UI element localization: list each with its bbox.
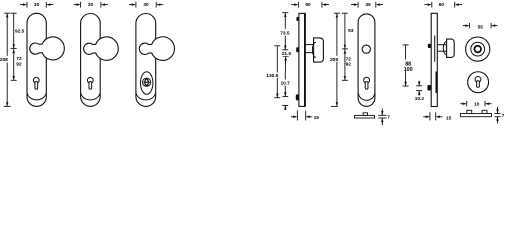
cylinder rosette keyhole [475, 76, 481, 82]
svg-text:7: 7 [387, 115, 390, 121]
svg-text:21.5: 21.5 [282, 51, 292, 57]
svg-text:92: 92 [346, 62, 352, 68]
svg-text:100: 100 [404, 67, 413, 73]
svg-text:55: 55 [478, 24, 484, 30]
plate 2 outline [81, 14, 101, 107]
front view width dimension 35 [351, 2, 383, 8]
thickness dimension 15 (group B) [423, 112, 442, 120]
plate 1 handle blob [30, 37, 65, 60]
side view B cylinder nub [427, 85, 431, 91]
plate 3 handle blob [139, 37, 174, 61]
plate 1 outline [27, 13, 46, 106]
svg-text:10.7: 10.7 [281, 81, 291, 87]
plate 2 handle blob [84, 37, 119, 60]
svg-text:7: 7 [502, 113, 505, 119]
side view A cylinder nub [296, 94, 299, 100]
plate 2 keyhole [87, 77, 93, 83]
side view A handle spindle nub [296, 47, 299, 52]
width dimension 30 plate 1 [20, 2, 53, 8]
plate 3 inner bottom arc [136, 93, 155, 100]
svg-text:15: 15 [446, 115, 452, 121]
side view A handle neck [305, 44, 313, 46]
depth dimension 60 [424, 2, 462, 8]
svg-text:130.5: 130.5 [266, 73, 278, 79]
right chain 93 / 72 / 92 [342, 13, 348, 80]
plate 1 inner bottom arc [27, 93, 46, 100]
front view inner bottom arc [358, 93, 375, 100]
side view B handle cap [447, 39, 455, 57]
rosette thickness dimension 7 [494, 107, 500, 124]
handle rosette diameter dimension 55 [463, 23, 498, 28]
plate 3 turn knob [143, 78, 151, 86]
svg-text:15: 15 [314, 115, 320, 121]
thickness dimension 7 [378, 108, 386, 125]
front view handle hole [362, 45, 370, 53]
right chain 208 [331, 13, 340, 106]
svg-text:30: 30 [34, 2, 40, 8]
side view B handle flange arc [443, 42, 446, 55]
left dimension line 92.5 / 72 / 92 [11, 13, 17, 80]
svg-text:72: 72 [346, 56, 352, 62]
plate 3 WC oval [141, 72, 153, 95]
plate 2 inner bottom arc [81, 93, 100, 100]
side view B plate bar [431, 13, 437, 106]
section profile below front view [355, 115, 375, 118]
plate 3 outline [136, 14, 156, 107]
svg-text:50: 50 [305, 2, 311, 8]
left dimension line 208 [4, 13, 11, 106]
svg-text:73.5: 73.5 [280, 31, 290, 37]
cylinder rosette front view [468, 72, 489, 93]
side view A handle flange arc [312, 42, 316, 57]
width dimension 30 plate 2 [74, 2, 108, 8]
chain dimension 88 / 100 [403, 45, 409, 86]
width dimension 30 plate 3 [129, 2, 163, 8]
rosette section profile [460, 114, 491, 117]
svg-text:92: 92 [16, 61, 22, 67]
cylinder rosette dimension 10 [460, 101, 491, 107]
plate 1 keyhole [33, 77, 39, 83]
front view keyhole [364, 77, 370, 83]
offset dimension 10.2 [416, 81, 422, 96]
svg-text:93: 93 [348, 28, 354, 34]
chain dimension 73.5 / 21.5 / 10.7 [282, 13, 288, 110]
svg-text:30: 30 [143, 2, 149, 8]
side view B handle neck [437, 44, 446, 46]
svg-text:60: 60 [439, 2, 445, 8]
front view plate outline [358, 14, 375, 106]
side view A plate bar [299, 13, 305, 106]
svg-text:10: 10 [474, 101, 480, 107]
svg-text:10.2: 10.2 [415, 96, 425, 102]
svg-text:35: 35 [365, 2, 371, 8]
side view B cylinder rosette profile [436, 72, 438, 94]
chain dimension 130.5 [274, 46, 280, 98]
svg-text:72: 72 [16, 56, 22, 62]
svg-text:208: 208 [0, 57, 8, 63]
side view A handle cap [314, 38, 324, 62]
depth dimension 50 [291, 2, 329, 8]
side view B rosette interface line [434, 36, 436, 62]
thickness dimension 15 (group A) [291, 111, 313, 121]
svg-text:208: 208 [330, 57, 338, 63]
handle rosette front view [466, 37, 490, 61]
svg-text:92.5: 92.5 [15, 29, 25, 35]
side view B handle spindle nub [428, 44, 431, 48]
svg-text:30: 30 [88, 2, 94, 8]
side view A top screw nub [296, 17, 299, 21]
